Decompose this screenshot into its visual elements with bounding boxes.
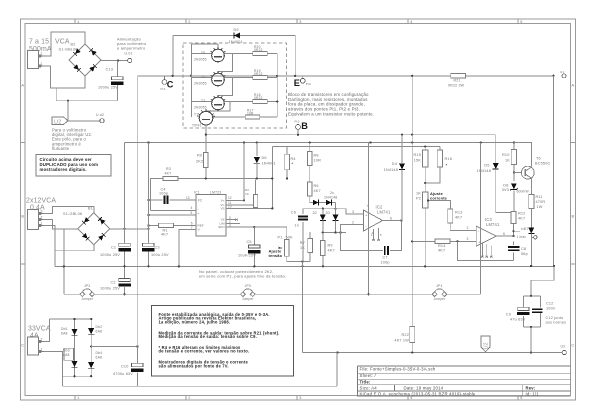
svg-text:1000u 25V: 1000u 25V (98, 86, 118, 90)
svg-text:7 a 15: 7 a 15 (29, 39, 49, 46)
svg-text:R16: R16 (445, 157, 453, 161)
svg-text:D6: D6 (262, 156, 267, 160)
svg-text:47u 63V: 47u 63V (510, 318, 526, 322)
svg-text:100p: 100p (381, 261, 390, 265)
svg-text:1N4148: 1N4148 (384, 168, 398, 172)
svg-text:U2: U2 (54, 119, 62, 125)
svg-text:E: E (294, 78, 300, 88)
svg-text:50K: 50K (286, 236, 294, 240)
svg-text:1000u 25V: 1000u 25V (100, 286, 120, 290)
svg-text:4K7: 4K7 (328, 249, 335, 253)
svg-text:D3: D3 (326, 211, 330, 215)
svg-text:4A: 4A (30, 332, 39, 339)
svg-text:T5: T5 (201, 51, 205, 55)
svg-text:Date: 19 may 2014: Date: 19 may 2014 (404, 386, 444, 391)
svg-text:Pt3: Pt3 (306, 82, 311, 86)
svg-text:C: C (167, 79, 174, 89)
svg-text:Sheet: /: Sheet: / (360, 373, 377, 378)
svg-text:T4: T4 (201, 75, 205, 79)
svg-text:0R22: 0R22 (254, 48, 263, 52)
svg-text:1N4001: 1N4001 (229, 40, 243, 44)
svg-text:R12: R12 (518, 212, 526, 216)
svg-text:R7: R7 (300, 241, 305, 245)
svg-text:A: A (21, 83, 24, 88)
svg-text:1: 1 (77, 20, 79, 24)
svg-text:4K7: 4K7 (165, 171, 172, 175)
svg-text:mostradores digitais.: mostradores digitais. (40, 167, 87, 172)
svg-text:D9: D9 (234, 28, 239, 32)
svg-text:2N3055: 2N3055 (194, 105, 207, 109)
svg-text:2: 2 (188, 396, 190, 400)
svg-text:1N4148: 1N4148 (324, 196, 337, 200)
svg-text:100p: 100p (159, 191, 168, 195)
svg-text:1K: 1K (300, 246, 305, 250)
svg-text:2x12VCA: 2x12VCA (26, 198, 56, 205)
svg-text:flutuante: flutuante (52, 146, 70, 151)
svg-text:C7: C7 (383, 256, 388, 260)
svg-text:4K7: 4K7 (161, 233, 168, 237)
svg-text:corrente: corrente (430, 195, 448, 200)
svg-text:Jumper: Jumper (242, 297, 254, 301)
svg-text:A: A (572, 83, 575, 88)
svg-text:C2: C2 (111, 281, 116, 285)
svg-text:10uF/25V: 10uF/25V (238, 254, 256, 258)
svg-text:B1: B1 (88, 207, 93, 211)
svg-text:5: 5 (520, 396, 522, 400)
svg-text:5: 5 (520, 20, 522, 24)
svg-text:BC550C: BC550C (535, 162, 551, 166)
svg-text:6A8: 6A8 (96, 330, 103, 334)
svg-text:0,4A: 0,4A (30, 205, 45, 212)
svg-text:P7: P7 (521, 227, 525, 231)
svg-text:56p: 56p (521, 252, 528, 256)
svg-text:10R: 10R (314, 159, 322, 163)
svg-text:R9: R9 (328, 244, 333, 248)
svg-text:LM741: LM741 (377, 210, 391, 215)
svg-text:5: 5 (191, 211, 193, 215)
svg-text:10R: 10R (247, 112, 254, 116)
svg-text:100u 25V: 100u 25V (151, 253, 169, 257)
svg-text:Jumper: Jumper (81, 297, 93, 301)
svg-text:Db2: Db2 (96, 325, 103, 329)
svg-text:1000u 25V: 1000u 25V (100, 253, 120, 257)
svg-text:15K: 15K (414, 159, 422, 163)
svg-text:D5: D5 (484, 164, 489, 168)
svg-text:4K7: 4K7 (314, 189, 321, 193)
svg-text:600mW: 600mW (517, 190, 530, 194)
svg-text:6A8: 6A8 (61, 332, 68, 336)
svg-text:+: + (198, 212, 200, 216)
svg-text:de tensão e corrente, ver valo: de tensão e corrente, ver valores no tex… (159, 349, 250, 354)
svg-text:2: 2 (188, 20, 190, 24)
svg-text:R11: R11 (536, 195, 543, 199)
svg-text:1W: 1W (537, 205, 543, 209)
svg-text:1a edição, número 24, julho 19: 1a edição, número 24, julho 1988. (159, 319, 231, 324)
svg-text:1K: 1K (505, 159, 510, 163)
svg-text:7: 7 (367, 204, 369, 208)
svg-text:C: C (21, 343, 24, 348)
svg-text:4K7: 4K7 (455, 216, 462, 220)
svg-text:2N3055: 2N3055 (194, 81, 207, 85)
svg-text:3: 3 (299, 396, 301, 400)
svg-text:C: C (571, 343, 574, 348)
svg-text:B: B (21, 214, 24, 219)
svg-text:LM723: LM723 (210, 190, 221, 194)
svg-text:Title:: Title: (360, 379, 371, 384)
svg-text:S1-GBL06: S1-GBL06 (59, 47, 78, 51)
svg-text:*: * (292, 161, 294, 166)
svg-text:Size: A4: Size: A4 (360, 386, 378, 391)
svg-text:D8: D8 (503, 184, 508, 188)
svg-text:JP2: JP2 (84, 284, 90, 288)
svg-text:R9: R9 (197, 154, 202, 158)
svg-text:S1-GBL06: S1-GBL06 (63, 212, 82, 216)
svg-text:R22: R22 (401, 333, 409, 337)
svg-text:VCA: VCA (55, 39, 70, 46)
svg-text:C13: C13 (106, 68, 114, 72)
svg-text:em série com P1, para ajuste f: em série com P1, para ajuste fino da ten… (199, 274, 286, 279)
svg-text:2: 2 (352, 220, 354, 224)
svg-text:U2: U2 (484, 342, 490, 349)
svg-text:C12 junto: C12 junto (546, 316, 564, 320)
svg-text:JP3: JP3 (245, 284, 251, 288)
svg-text:4K7: 4K7 (518, 217, 525, 221)
svg-text:5: 5 (380, 233, 382, 237)
svg-text:IC1: IC1 (194, 190, 200, 194)
svg-text:0R22: 0R22 (254, 96, 263, 100)
svg-text:R21: R21 (454, 79, 461, 83)
svg-text:P1: P1 (278, 236, 283, 240)
svg-text:R10: R10 (502, 153, 510, 157)
svg-text:FC: FC (198, 199, 203, 203)
svg-text:C1: C1 (111, 246, 116, 250)
svg-text:U1: U1 (560, 70, 564, 74)
svg-text:2K2: 2K2 (196, 160, 203, 164)
svg-text:3: 3 (467, 237, 469, 241)
svg-text:Medição da tensão de saída: te: Medição da tensão de saída: tensão sobre… (159, 334, 257, 339)
svg-text:B: B (301, 121, 308, 131)
svg-text:Id: 1/1: Id: 1/1 (526, 391, 540, 396)
svg-text:Db4: Db4 (96, 351, 103, 355)
svg-text:0R22 3W: 0R22 3W (448, 83, 465, 87)
svg-text:4K7 1W: 4K7 1W (394, 339, 409, 343)
svg-text:4700u 63V: 4700u 63V (113, 372, 133, 376)
svg-text:tensão: tensão (269, 253, 283, 258)
svg-text:4: 4 (191, 206, 193, 210)
svg-text:6: 6 (503, 232, 505, 236)
svg-text:C6: C6 (291, 211, 296, 215)
svg-text:1K: 1K (245, 192, 249, 196)
svg-text:Db1: Db1 (61, 327, 68, 331)
svg-text:P2: P2 (416, 197, 421, 201)
svg-text:T6: T6 (536, 157, 541, 161)
svg-text:R14: R14 (438, 244, 446, 248)
svg-text:1n: 1n (294, 224, 299, 228)
svg-text:6: 6 (390, 216, 392, 220)
svg-text:2x: 2x (330, 191, 334, 195)
svg-text:aos bornes: aos bornes (546, 321, 567, 325)
svg-text:1N4001: 1N4001 (262, 162, 276, 166)
svg-text:1N4148: 1N4148 (477, 169, 491, 173)
svg-text:C10: C10 (121, 365, 129, 369)
svg-text:C12: C12 (546, 302, 554, 306)
svg-text:V-: V- (198, 228, 201, 232)
svg-text:R8: R8 (314, 154, 319, 158)
svg-text:LM741: LM741 (486, 222, 500, 227)
svg-text:C9: C9 (506, 313, 511, 317)
svg-text:1 max: 1 max (517, 235, 527, 239)
svg-text:1: 1 (77, 396, 79, 400)
svg-text:U.01: U.01 (125, 52, 133, 56)
svg-text:V+: V+ (221, 198, 225, 202)
svg-text:4: 4 (372, 231, 374, 235)
svg-text:Jumper: Jumper (434, 297, 446, 301)
svg-text:3: 3 (299, 20, 301, 24)
svg-text:D2: D2 (313, 211, 317, 215)
svg-text:100n: 100n (546, 307, 555, 311)
svg-text:4: 4 (410, 396, 412, 400)
svg-text:3: 3 (352, 210, 354, 214)
svg-text:12: 12 (228, 196, 232, 200)
svg-text:Pt2: Pt2 (295, 119, 300, 123)
svg-text:e amperímetro: e amperímetro (117, 46, 146, 51)
svg-text:C5: C5 (247, 240, 252, 244)
svg-text:C8: C8 (521, 247, 526, 251)
svg-text:Equivalem a um transistor muit: Equivalem a um transistor muito potente. (288, 111, 374, 116)
svg-text:T3: T3 (201, 99, 205, 103)
svg-text:0R22: 0R22 (254, 72, 263, 76)
svg-text:TIP41: TIP41 (192, 124, 202, 128)
svg-text:KiCad E.D.A. eeschema (2013-0: KiCad E.D.A. eeschema (2013-05-31 BZR 40… (360, 391, 476, 396)
svg-text:R13: R13 (455, 211, 463, 215)
svg-text:R15: R15 (413, 153, 421, 157)
svg-text:470R: 470R (536, 200, 546, 204)
svg-text:R6: R6 (314, 184, 319, 188)
svg-text:JP1: JP1 (436, 284, 442, 288)
svg-text:2: 2 (467, 226, 469, 230)
svg-text:D4: D4 (392, 162, 397, 166)
svg-text:C3: C3 (155, 246, 160, 250)
svg-text:4K7: 4K7 (438, 249, 445, 253)
svg-text:Rev:: Rev: (526, 386, 536, 391)
svg-text:B: B (572, 214, 575, 219)
svg-text:VS: VS (220, 206, 224, 210)
svg-text:1K: 1K (416, 192, 421, 196)
svg-text:*: * (446, 163, 448, 168)
svg-text:U.d2: U.d2 (96, 113, 104, 117)
svg-text:B2: B2 (71, 42, 76, 46)
svg-text:são alimentados por fonte de 7: são alimentados por fonte de 7V. (159, 363, 229, 368)
svg-text:SDN: SDN (218, 225, 224, 229)
svg-text:T1: T1 (194, 113, 198, 117)
svg-text:Pt1: Pt1 (161, 87, 166, 91)
svg-text:2N3055: 2N3055 (194, 57, 207, 61)
svg-text:3V3: 3V3 (502, 188, 509, 192)
svg-text:U2: U2 (561, 345, 566, 349)
svg-text:File: Fonte+Simples-0-35V-0-3A: File: Fonte+Simples-0-35V-0-3A.sch (360, 366, 436, 371)
svg-text:4: 4 (410, 20, 412, 24)
svg-text:6A8: 6A8 (96, 356, 103, 360)
